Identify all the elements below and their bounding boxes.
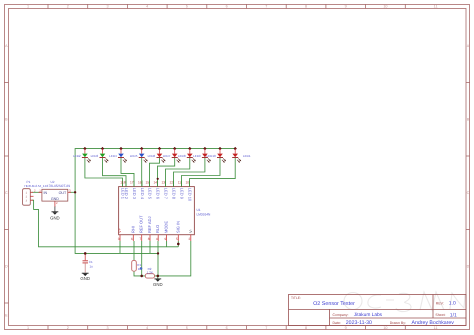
svg-text:10: 10 bbox=[383, 326, 387, 330]
svg-text:LED 5: LED 5 bbox=[148, 188, 153, 200]
svg-text:9: 9 bbox=[345, 326, 347, 330]
svg-text:4: 4 bbox=[146, 5, 148, 9]
svg-text:RHI: RHI bbox=[130, 226, 135, 233]
svg-text:9: 9 bbox=[164, 237, 166, 241]
svg-text:1.2K: 1.2K bbox=[147, 270, 153, 274]
svg-text:11: 11 bbox=[434, 5, 438, 9]
svg-text:Jitakum Labs: Jitakum Labs bbox=[354, 312, 383, 318]
svg-text:13: 13 bbox=[161, 181, 165, 185]
svg-text:GND: GND bbox=[153, 282, 163, 287]
svg-text:D: D bbox=[5, 265, 8, 269]
svg-text:REF OUT: REF OUT bbox=[139, 215, 144, 233]
svg-text:HDR-M-2.54_1X3: HDR-M-2.54_1X3 bbox=[24, 184, 48, 188]
svg-text:11: 11 bbox=[178, 181, 182, 185]
svg-text:1u: 1u bbox=[90, 264, 94, 268]
svg-text:C: C bbox=[467, 191, 470, 195]
svg-text:IN: IN bbox=[44, 191, 48, 195]
svg-text:RLO: RLO bbox=[155, 225, 160, 233]
svg-text:TITLE:: TITLE: bbox=[291, 296, 301, 300]
svg-text:LED 8: LED 8 bbox=[172, 188, 177, 200]
svg-text:Date:: Date: bbox=[333, 321, 341, 325]
svg-text:LED 2: LED 2 bbox=[124, 188, 129, 200]
svg-text:LED 6: LED 6 bbox=[156, 188, 161, 200]
svg-text:3: 3 bbox=[106, 326, 108, 330]
svg-text:17: 17 bbox=[130, 181, 134, 185]
svg-text:7: 7 bbox=[265, 326, 267, 330]
svg-text:2: 2 bbox=[189, 237, 191, 241]
svg-text:SIG IN: SIG IN bbox=[175, 221, 180, 233]
svg-text:6: 6 bbox=[226, 326, 228, 330]
svg-text:GND: GND bbox=[50, 216, 60, 221]
svg-text:LED 10: LED 10 bbox=[188, 188, 193, 202]
svg-text:LED 4: LED 4 bbox=[140, 188, 145, 200]
svg-text:7: 7 bbox=[139, 237, 141, 241]
svg-text:8: 8 bbox=[305, 326, 307, 330]
svg-text:LED8: LED8 bbox=[178, 154, 186, 158]
svg-text:7: 7 bbox=[265, 5, 267, 9]
svg-text:4: 4 bbox=[146, 326, 148, 330]
svg-text:78L05/SOT-89: 78L05/SOT-89 bbox=[49, 184, 71, 188]
svg-text:LED1: LED1 bbox=[243, 154, 251, 158]
svg-text:LED3: LED3 bbox=[91, 154, 99, 158]
svg-text:LED2: LED2 bbox=[73, 154, 81, 158]
svg-text:LED 7: LED 7 bbox=[164, 188, 169, 200]
svg-text:REV:: REV: bbox=[436, 301, 444, 305]
svg-text:14: 14 bbox=[153, 181, 157, 185]
svg-text:LED 3: LED 3 bbox=[132, 188, 137, 200]
svg-text:LM3914N: LM3914N bbox=[197, 212, 212, 216]
svg-text:LED6: LED6 bbox=[148, 154, 156, 158]
svg-text:16: 16 bbox=[138, 181, 142, 185]
svg-text:V+: V+ bbox=[117, 227, 122, 233]
svg-text:18: 18 bbox=[122, 181, 126, 185]
svg-text:Andrey Bochkarev: Andrey Bochkarev bbox=[412, 320, 455, 326]
svg-text:1: 1 bbox=[27, 326, 29, 330]
svg-text:D: D bbox=[467, 265, 470, 269]
svg-text:1.0: 1.0 bbox=[449, 301, 456, 307]
svg-text:LED5: LED5 bbox=[130, 154, 138, 158]
svg-text:6: 6 bbox=[226, 5, 228, 9]
svg-text:15: 15 bbox=[145, 181, 149, 185]
svg-text:2023-11-30: 2023-11-30 bbox=[346, 320, 372, 326]
svg-text:Company:: Company: bbox=[333, 313, 349, 317]
svg-text:3: 3 bbox=[118, 237, 120, 241]
svg-text:LED7: LED7 bbox=[163, 154, 171, 158]
svg-text:O2 Sensor Tester: O2 Sensor Tester bbox=[313, 301, 355, 307]
svg-text:5: 5 bbox=[186, 5, 188, 9]
svg-text:5: 5 bbox=[186, 326, 188, 330]
svg-text:LED 9: LED 9 bbox=[180, 188, 185, 200]
svg-text:1: 1 bbox=[27, 5, 29, 9]
svg-text:REF ADJ: REF ADJ bbox=[147, 217, 152, 233]
svg-text:Drawn By:: Drawn By: bbox=[390, 321, 406, 325]
svg-text:8: 8 bbox=[148, 237, 150, 241]
svg-text:6: 6 bbox=[131, 237, 133, 241]
svg-text:2: 2 bbox=[67, 326, 69, 330]
svg-text:LED4: LED4 bbox=[109, 154, 117, 158]
svg-text:LED9: LED9 bbox=[193, 154, 201, 158]
svg-text:10: 10 bbox=[383, 5, 387, 9]
svg-text:V-: V- bbox=[188, 229, 193, 233]
svg-text:12: 12 bbox=[169, 181, 173, 185]
svg-text:10: 10 bbox=[185, 181, 189, 185]
svg-text:C: C bbox=[5, 191, 8, 195]
svg-text:5: 5 bbox=[176, 237, 178, 241]
svg-text:LED10: LED10 bbox=[207, 154, 217, 158]
svg-text:4: 4 bbox=[156, 237, 158, 241]
svg-text:MODE: MODE bbox=[164, 221, 169, 233]
svg-text:2: 2 bbox=[67, 5, 69, 9]
svg-text:Sheet:: Sheet: bbox=[435, 313, 445, 317]
svg-text:1/1: 1/1 bbox=[450, 312, 457, 318]
svg-text:OUT: OUT bbox=[59, 191, 67, 195]
svg-text:8: 8 bbox=[305, 5, 307, 9]
svg-text:9: 9 bbox=[345, 5, 347, 9]
svg-text:GND: GND bbox=[80, 276, 90, 281]
svg-text:3: 3 bbox=[106, 5, 108, 9]
svg-text:11: 11 bbox=[434, 326, 438, 330]
